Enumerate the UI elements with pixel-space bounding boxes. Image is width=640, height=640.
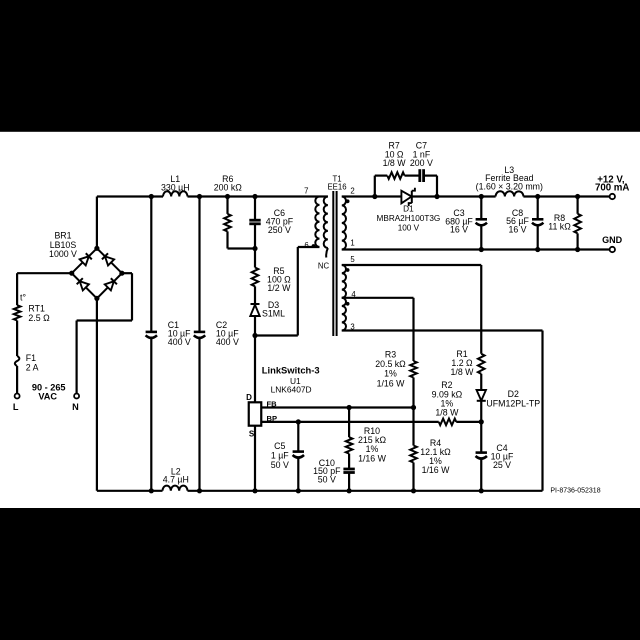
svg-text:R3: R3 [385, 350, 396, 360]
svg-text:700 mA: 700 mA [595, 183, 629, 194]
svg-text:D: D [246, 393, 252, 402]
svg-text:16 V: 16 V [508, 224, 526, 234]
svg-text:7: 7 [304, 186, 308, 195]
svg-text:400 V: 400 V [216, 337, 239, 347]
svg-text:N: N [72, 402, 79, 412]
svg-text:LinkSwitch-3: LinkSwitch-3 [262, 364, 320, 375]
svg-text:1/16 W: 1/16 W [377, 378, 406, 388]
svg-text:400 V: 400 V [168, 337, 191, 347]
svg-text:50 V: 50 V [318, 474, 336, 484]
svg-text:L: L [13, 402, 19, 412]
svg-text:2: 2 [350, 186, 354, 195]
svg-text:25 V: 25 V [493, 460, 511, 470]
svg-text:LNK6407D: LNK6407D [271, 385, 312, 395]
svg-text:1: 1 [350, 239, 354, 248]
svg-text:VAC: VAC [38, 392, 57, 402]
svg-text:330 µH: 330 µH [161, 182, 190, 192]
svg-text:4: 4 [351, 290, 356, 299]
svg-text:UFM12PL-TP: UFM12PL-TP [486, 399, 540, 409]
svg-text:250 V: 250 V [268, 225, 291, 235]
svg-text:t°: t° [20, 292, 26, 302]
svg-text:16 V: 16 V [450, 225, 468, 235]
svg-text:C5: C5 [274, 441, 285, 451]
svg-text:1/8 W: 1/8 W [435, 408, 459, 418]
svg-text:4.7 µH: 4.7 µH [163, 475, 189, 485]
svg-text:NC: NC [318, 262, 330, 271]
svg-text:(1.60 × 3.20 mm): (1.60 × 3.20 mm) [476, 181, 543, 191]
svg-text:2 A: 2 A [26, 363, 39, 373]
svg-text:200 kΩ: 200 kΩ [214, 182, 243, 192]
svg-text:1/8 W: 1/8 W [451, 367, 475, 377]
svg-text:6: 6 [304, 241, 308, 250]
svg-text:1 µF: 1 µF [271, 451, 289, 461]
svg-text:S1ML: S1ML [262, 309, 285, 319]
svg-text:PI-8736-052318: PI-8736-052318 [550, 487, 600, 494]
svg-text:FB: FB [267, 400, 278, 409]
svg-text:50 V: 50 V [271, 460, 289, 470]
svg-text:11 kΩ: 11 kΩ [548, 222, 571, 232]
svg-text:1/16 W: 1/16 W [422, 465, 451, 475]
svg-text:1/8 W: 1/8 W [383, 158, 407, 168]
svg-text:EE16: EE16 [327, 183, 346, 192]
svg-text:MBRA2H100T3G: MBRA2H100T3G [377, 214, 441, 223]
svg-text:1%: 1% [384, 369, 397, 379]
svg-text:BP: BP [267, 414, 278, 423]
svg-text:2.5 Ω: 2.5 Ω [28, 313, 50, 323]
svg-text:100 V: 100 V [398, 223, 420, 232]
svg-text:1/2 W: 1/2 W [267, 283, 291, 293]
svg-text:200 V: 200 V [410, 158, 433, 168]
svg-text:D1: D1 [403, 205, 414, 214]
svg-text:GND: GND [602, 235, 623, 245]
svg-text:5: 5 [350, 255, 355, 264]
svg-text:S: S [249, 430, 255, 439]
svg-text:3: 3 [350, 323, 354, 332]
svg-text:1/16 W: 1/16 W [358, 453, 387, 463]
svg-text:1000 V: 1000 V [49, 249, 77, 259]
svg-text:20.5 kΩ: 20.5 kΩ [375, 359, 406, 369]
